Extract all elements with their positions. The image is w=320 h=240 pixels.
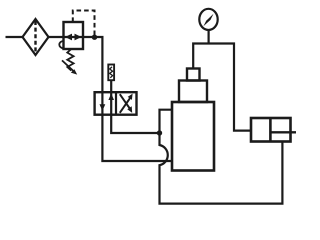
arrow through spring (adjustable) xyxy=(62,60,77,74)
pilot line (dashed) from regulator top to output junction xyxy=(73,11,95,36)
wire stem from top tier up and right to cylinder feed xyxy=(193,44,251,131)
regulator vent arc xyxy=(59,41,63,48)
valve right cell flow line with up arrow (wire continues down to junction) xyxy=(108,92,159,133)
regulator U1 (pressure reducing valve box) xyxy=(59,22,83,49)
regulator flow arrowheads xyxy=(65,34,72,41)
wire actuator to valve xyxy=(110,80,112,92)
piston xyxy=(269,118,272,142)
valve V1 (2-position directional valve body) xyxy=(95,92,137,115)
wire filter to regulator, through regulator, to corner, down into valve, down to lower run, to cylinder body left port xyxy=(49,37,173,161)
piston rod xyxy=(270,131,296,133)
spring (adjustment) below regulator xyxy=(67,49,73,70)
cylinder C1 (right, with piston and rod) xyxy=(251,118,296,142)
node junction dot regulator output xyxy=(92,35,97,40)
wire junction up to booster body upper port xyxy=(160,110,173,133)
booster body (large cylinder) xyxy=(172,102,214,171)
filter F1 (diamond with dashed element) xyxy=(23,19,49,55)
booster middle tier xyxy=(179,81,207,103)
wire junction down with crossover hop, bottom rail, up to cylinder bottom port xyxy=(160,133,283,204)
solenoid/spring actuator box above valve xyxy=(108,65,114,81)
valve closed cell X with arrows xyxy=(120,94,133,113)
valve left cell flow line with down arrow xyxy=(100,104,106,111)
wire inlet line xyxy=(6,36,23,38)
wire gauge stem xyxy=(208,30,210,44)
pressure gauge G1 xyxy=(199,9,217,30)
node junction dot lower net xyxy=(157,130,162,135)
booster top tier xyxy=(187,69,200,81)
